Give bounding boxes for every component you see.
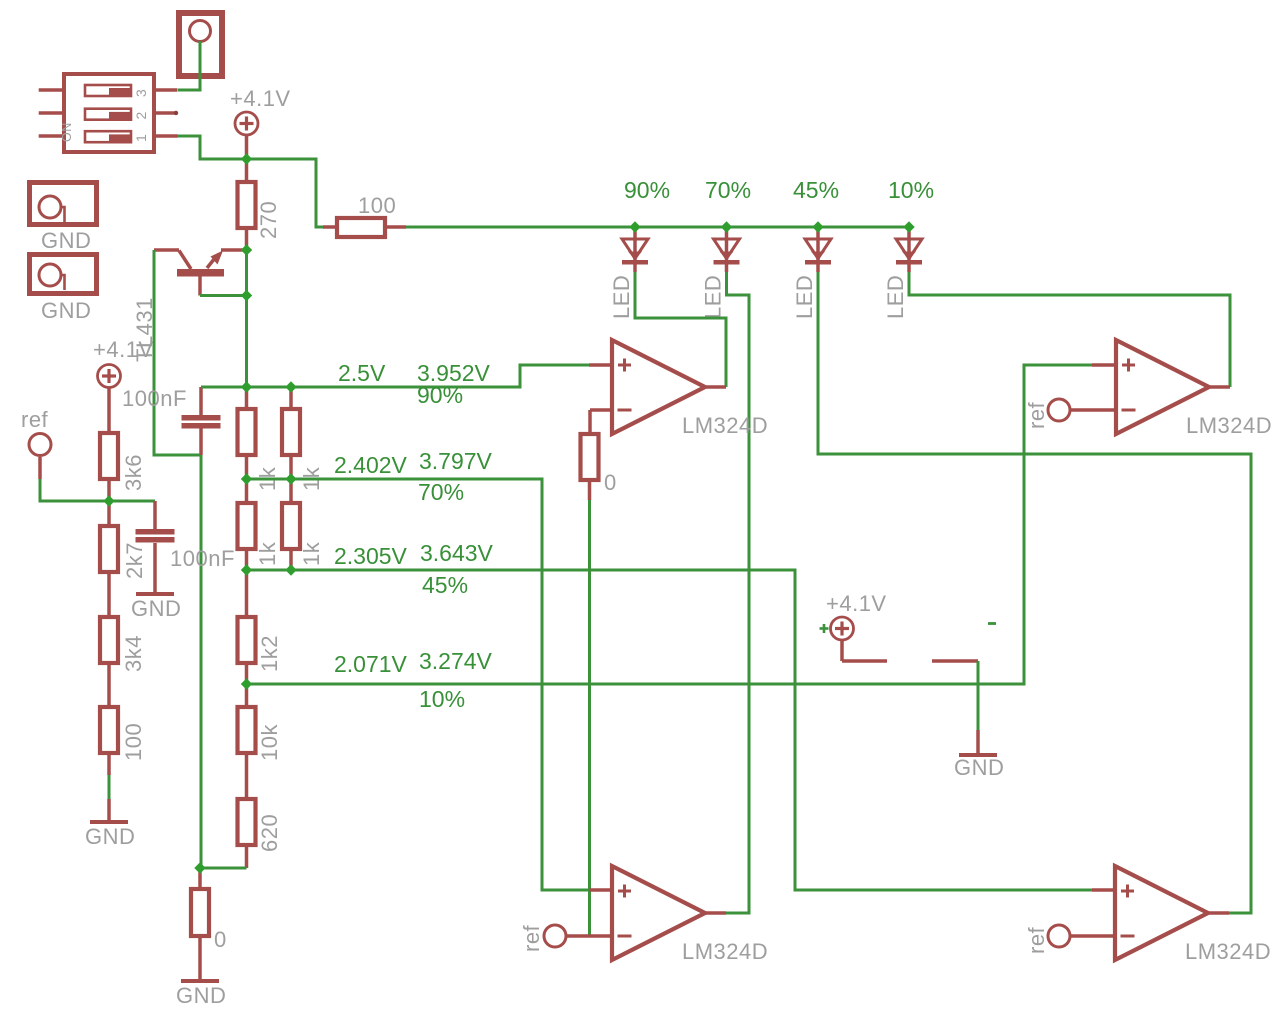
LED 90% bbox=[609, 231, 648, 319]
junction TL431 anode bbox=[241, 290, 252, 301]
svg-text:0: 0 bbox=[604, 470, 617, 495]
svg-text:3k6: 3k6 bbox=[121, 454, 146, 491]
junction bbox=[285, 473, 296, 484]
pin ref pad bbox=[38, 457, 42, 479]
svg-text:10k: 10k bbox=[257, 724, 282, 761]
wire stub green plus bbox=[820, 624, 829, 633]
svg-text:ON: ON bbox=[60, 122, 74, 142]
svg-text:2k7: 2k7 bbox=[122, 542, 147, 579]
resistor 100 (left chain) bbox=[100, 707, 146, 761]
op-amp A LM324D bbox=[612, 340, 768, 438]
svg-text:90%: 90% bbox=[417, 382, 463, 408]
pin -in C bbox=[1070, 408, 1116, 412]
svg-text:GND: GND bbox=[85, 824, 135, 849]
ground GND (left chain) bbox=[85, 752, 135, 849]
wire LED45 to opamp D out bbox=[818, 272, 1251, 913]
resistor R100 (horizontal) bbox=[323, 225, 337, 229]
svg-text:2.5V: 2.5V bbox=[338, 360, 386, 386]
junction TL431 cathode bbox=[241, 244, 252, 255]
junction LED 10% anode bbox=[903, 221, 914, 232]
wire 2.5V rail bbox=[201, 365, 589, 387]
pin out D bbox=[1207, 911, 1229, 915]
svg-text:+4.1V: +4.1V bbox=[826, 591, 887, 616]
svg-text:100: 100 bbox=[121, 723, 146, 761]
pin +in D bbox=[1092, 888, 1115, 892]
op-amp D LM324D bbox=[1115, 866, 1271, 964]
wire TL431 anode to node bbox=[200, 294, 247, 297]
wire 2.402V rail bbox=[247, 479, 590, 890]
junction LED 70% anode bbox=[721, 221, 732, 232]
wire TL431 cathode down to 2.5V rail bbox=[245, 250, 248, 387]
resistor 3k4 bbox=[100, 617, 146, 672]
supply +4.1V (battery sim) bbox=[826, 591, 887, 640]
svg-text:3.643V: 3.643V bbox=[420, 540, 494, 566]
svg-text:GND: GND bbox=[176, 983, 226, 1008]
junction ref/divider bbox=[103, 495, 114, 506]
net dash minus bbox=[988, 622, 996, 625]
wire LED10 to opamp C out bbox=[909, 272, 1230, 387]
svg-text:3.797V: 3.797V bbox=[419, 448, 493, 474]
LED 45% bbox=[792, 231, 831, 319]
svg-text:LED: LED bbox=[883, 275, 908, 319]
svg-text:LED: LED bbox=[701, 275, 726, 319]
junction LED 90% anode bbox=[629, 221, 640, 232]
svg-text:ref: ref bbox=[1024, 926, 1049, 954]
svg-text:GND: GND bbox=[954, 755, 1004, 780]
svg-text:ref: ref bbox=[519, 924, 544, 952]
svg-text:100: 100 bbox=[358, 193, 396, 218]
wire node 0V vertical bbox=[200, 455, 203, 868]
wire R270 to TL431 node bbox=[245, 228, 249, 250]
pin out B bbox=[705, 911, 726, 915]
wire switch to GND bbox=[977, 661, 980, 731]
svg-text:3.274V: 3.274V bbox=[419, 648, 493, 674]
junction bbox=[241, 381, 252, 392]
svg-text:GND: GND bbox=[41, 298, 91, 323]
pin -in B bbox=[566, 934, 612, 938]
svg-text:270: 270 bbox=[256, 201, 281, 239]
svg-text:100nF: 100nF bbox=[122, 386, 187, 411]
svg-text:45%: 45% bbox=[793, 177, 839, 203]
svg-text:1: 1 bbox=[133, 134, 149, 142]
resistor ladder 1k/1k row2 bbox=[245, 479, 249, 503]
svg-text:LM324D: LM324D bbox=[682, 413, 768, 438]
resistor 0 (bottom) bbox=[198, 868, 202, 889]
pin +in A bbox=[589, 363, 612, 367]
svg-text:+4.1V: +4.1V bbox=[230, 86, 291, 111]
ref pad (left) bbox=[21, 407, 51, 456]
junction bbox=[241, 564, 252, 575]
wire supply to node bbox=[245, 135, 249, 159]
svg-text:1k: 1k bbox=[299, 541, 324, 566]
ref pad (opamp D) bbox=[1024, 925, 1070, 954]
wire DIP pin1 to +4.1V net bbox=[178, 136, 324, 227]
junction bottom node bbox=[194, 862, 205, 873]
pin -in A bbox=[590, 408, 612, 412]
GND pad (upper) bbox=[30, 183, 97, 254]
ref pad (opamp C) bbox=[1024, 399, 1070, 429]
svg-text:45%: 45% bbox=[422, 572, 468, 598]
svg-text:100nF: 100nF bbox=[170, 546, 235, 571]
pin +in B bbox=[589, 888, 612, 892]
svg-text:2.071V: 2.071V bbox=[334, 651, 408, 677]
svg-text:2: 2 bbox=[133, 111, 149, 119]
wire 620 bottom to node bbox=[200, 867, 247, 870]
svg-text:LED: LED bbox=[792, 275, 817, 319]
svg-text:LM324D: LM324D bbox=[1185, 939, 1271, 964]
svg-text:LM324D: LM324D bbox=[1186, 413, 1272, 438]
svg-text:10%: 10% bbox=[888, 177, 934, 203]
wire pad to DIP pin3 bbox=[178, 41, 200, 90]
pin -in D bbox=[1070, 934, 1115, 938]
svg-text:70%: 70% bbox=[418, 479, 464, 505]
supply +4.1V (main) bbox=[230, 86, 291, 135]
junction bbox=[285, 564, 296, 575]
GND pad (lower) bbox=[30, 255, 97, 324]
resistor 1k2 bbox=[245, 570, 249, 617]
svg-text:10%: 10% bbox=[419, 686, 465, 712]
resistor 0 (opamp A feedback) bbox=[581, 434, 617, 495]
pin out C bbox=[1207, 385, 1230, 389]
connector pad X1 (top) bbox=[179, 13, 222, 76]
svg-text:ref: ref bbox=[21, 407, 49, 432]
wire 2.305V rail bbox=[247, 570, 1093, 890]
junction bbox=[241, 473, 252, 484]
wire LED anode bus bbox=[406, 226, 909, 229]
capacitor 100nF (at TL431) bbox=[199, 387, 203, 415]
resistor 2k7 bbox=[107, 501, 111, 526]
switch S2 bbox=[840, 640, 844, 661]
svg-text:1k: 1k bbox=[255, 541, 280, 566]
junction LED 45% anode bbox=[812, 221, 823, 232]
wire 2.071V rail bbox=[247, 365, 1093, 684]
capacitor 100nF (at ref) bbox=[153, 501, 157, 529]
LED 10% bbox=[883, 231, 922, 319]
LED 70% bbox=[701, 231, 740, 319]
svg-text:GND: GND bbox=[131, 596, 181, 621]
resistor R270 bbox=[245, 159, 249, 182]
wire LED70 to opamp B out bbox=[726, 272, 749, 913]
svg-text:70%: 70% bbox=[705, 177, 751, 203]
wire to GND bbox=[108, 775, 111, 800]
pin out A bbox=[705, 385, 726, 389]
op-amp B LM324D bbox=[612, 866, 768, 964]
ref pad (opamp B) bbox=[519, 924, 566, 952]
svg-text:90%: 90% bbox=[624, 177, 670, 203]
svg-text:2.402V: 2.402V bbox=[334, 452, 408, 478]
svg-text:3k4: 3k4 bbox=[121, 635, 146, 672]
svg-text:ref: ref bbox=[1024, 401, 1049, 429]
svg-text:+4.1V: +4.1V bbox=[93, 337, 154, 362]
wire ref net vertical bbox=[588, 500, 591, 936]
wire LED90 to opamp A out bbox=[635, 272, 726, 387]
wire ref net left bbox=[40, 479, 155, 501]
TL431 U1 bbox=[132, 250, 247, 362]
svg-text:2.305V: 2.305V bbox=[334, 543, 408, 569]
svg-text:LED: LED bbox=[609, 275, 634, 319]
ground GND (C2) bbox=[131, 543, 181, 621]
svg-text:1k2: 1k2 bbox=[257, 635, 282, 672]
DIP switch S1 bbox=[39, 74, 179, 152]
svg-text:3: 3 bbox=[133, 89, 149, 97]
op-amp C LM324D bbox=[1116, 340, 1272, 438]
resistor 3k6 bbox=[107, 388, 111, 433]
capacitor C1 100nF plates bbox=[182, 415, 221, 429]
supply +4.1V (left) bbox=[93, 337, 154, 388]
svg-text:LM324D: LM324D bbox=[682, 939, 768, 964]
ground GND (bottom) bbox=[176, 936, 226, 1008]
junction +4.1V node bbox=[241, 153, 252, 164]
junction bbox=[241, 678, 252, 689]
resistor 620 bbox=[238, 799, 283, 852]
pin +in C bbox=[1092, 363, 1116, 367]
svg-text:0: 0 bbox=[214, 927, 227, 952]
junction bbox=[285, 381, 296, 392]
resistor ladder 1k/1k row1 bbox=[245, 387, 249, 409]
wire TL431 ref down bbox=[154, 250, 201, 455]
capacitor C2 100nF plates bbox=[136, 529, 175, 543]
svg-text:GND: GND bbox=[41, 228, 91, 253]
svg-text:620: 620 bbox=[257, 814, 282, 852]
ground GND (switch) bbox=[954, 730, 1004, 780]
resistor 10k bbox=[245, 684, 249, 707]
